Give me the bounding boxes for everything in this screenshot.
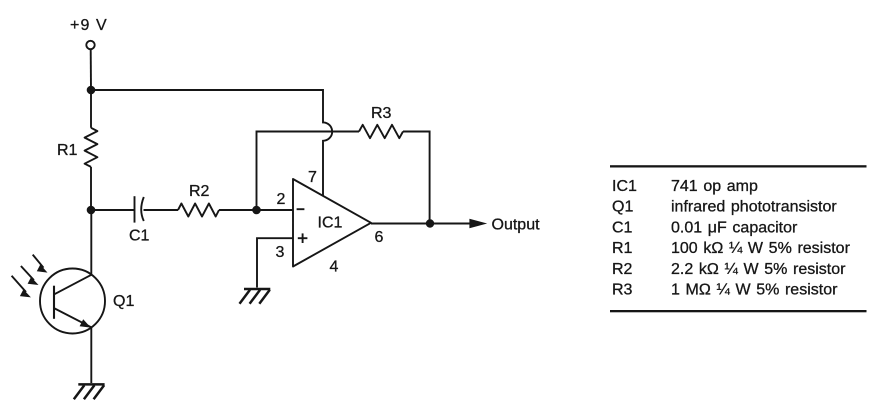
svg-text:R2: R2: [612, 261, 633, 278]
resistor R3: [359, 125, 403, 138]
wire: C1 to resistor R2: [144, 209, 179, 211]
light arrow 1: [33, 255, 48, 273]
phototransistor Q1: [40, 269, 105, 334]
svg-text:C1: C1: [129, 228, 150, 245]
op-amp non-inverting input marker (plus): [298, 233, 308, 243]
svg-text:R2: R2: [189, 183, 210, 200]
wire: R1 down to junction B: [90, 167, 92, 210]
svg-text:3: 3: [276, 244, 285, 261]
svg-text:R3: R3: [371, 105, 392, 122]
svg-text:Q1: Q1: [612, 199, 633, 216]
ground (Q1 emitter): [74, 384, 105, 399]
svg-text:R1: R1: [612, 240, 633, 257]
wire: feedback from junction C up and right to R3: [257, 132, 360, 211]
parts list bottom rule: [610, 310, 867, 312]
svg-text:4: 4: [330, 259, 339, 276]
wire: junction B down to Q1 collector: [90, 210, 92, 275]
svg-text:Output: Output: [492, 216, 541, 233]
svg-text:0.01 μF capacitor: 0.01 μF capacitor: [671, 219, 798, 236]
output arrowhead: [469, 219, 487, 229]
wire: pin 3 stub to ground: [257, 238, 293, 287]
resistor R2: [178, 204, 219, 217]
junction C (inverting input node): [252, 206, 261, 215]
svg-text:infrared phototransistor: infrared phototransistor: [671, 199, 837, 216]
junction A (+9V rail tap): [87, 86, 96, 95]
wire: top rail from junction A to pin-7 drop, with hop over feedback wire: [91, 90, 332, 197]
svg-text:C1: C1: [612, 219, 633, 236]
svg-text:2: 2: [277, 191, 286, 208]
svg-text:6: 6: [375, 229, 384, 246]
svg-text:1 MΩ ¼ W 5% resistor: 1 MΩ ¼ W 5% resistor: [671, 282, 838, 299]
svg-text:IC1: IC1: [612, 178, 637, 195]
op-amp inverting input marker (minus): [297, 208, 305, 210]
svg-text:R3: R3: [612, 282, 633, 299]
svg-text:741 op amp: 741 op amp: [671, 178, 758, 195]
junction D (output node): [426, 219, 434, 227]
svg-text:Q1: Q1: [113, 293, 134, 310]
parts list top rule: [610, 165, 867, 167]
svg-text:100 kΩ ¼ W 5% resistor: 100 kΩ ¼ W 5% resistor: [671, 240, 851, 257]
wire: junction A down to resistor R1: [90, 90, 92, 128]
svg-text:7: 7: [308, 169, 317, 186]
resistor R1: [85, 128, 98, 167]
wire: R2 to junction C and on to pin 2: [219, 209, 293, 211]
op-amp U1 (IC1) triangle: [293, 179, 371, 267]
power terminal +9V: [86, 41, 94, 49]
svg-text:IC1: IC1: [318, 214, 343, 231]
svg-text:2.2 kΩ ¼ W 5% resistor: 2.2 kΩ ¼ W 5% resistor: [671, 261, 846, 278]
wire: junction B to capacitor C1: [91, 209, 135, 211]
wire: +9V terminal down to junction A: [90, 49, 92, 90]
wire: op-amp output to node D and to arrow: [371, 223, 470, 225]
ground (pin 3): [240, 289, 271, 304]
wire: R3 right and down to output node D: [403, 132, 430, 224]
junction B (R1 / C1 / Q1 node): [87, 206, 96, 215]
light arrow 2: [21, 266, 39, 285]
svg-text:R1: R1: [57, 142, 78, 159]
wire: Q1 emitter to ground: [90, 327, 92, 383]
capacitor C1: [135, 196, 144, 222]
light arrow 3: [12, 276, 31, 298]
svg-text:+9 V: +9 V: [70, 17, 108, 34]
